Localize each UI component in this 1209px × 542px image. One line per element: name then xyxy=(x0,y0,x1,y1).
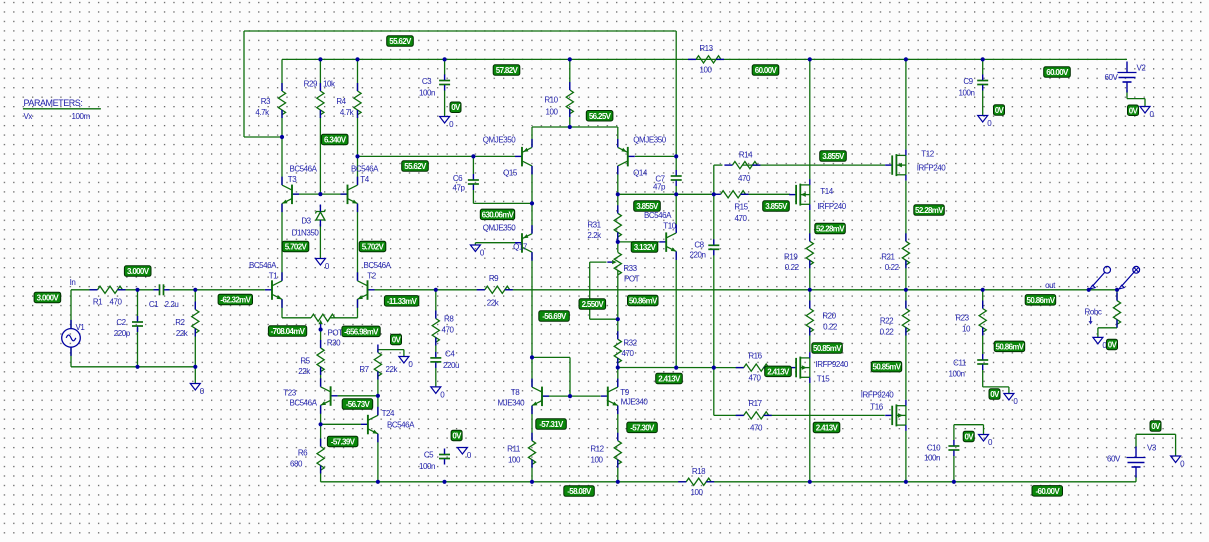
junction xyxy=(530,355,534,359)
resistor R20 xyxy=(806,301,813,336)
wire xyxy=(675,194,677,233)
wire xyxy=(531,252,533,357)
wire xyxy=(377,434,379,482)
net voltage badge 630.06mV xyxy=(480,209,514,220)
capacitor C3 xyxy=(439,75,450,91)
svg-text:22k: 22k xyxy=(176,329,189,338)
wire xyxy=(1127,98,1145,100)
net voltage badge 55.62V xyxy=(402,161,429,172)
junction xyxy=(904,57,908,61)
wire xyxy=(194,367,196,384)
wire xyxy=(244,30,676,32)
wire xyxy=(137,328,139,367)
wire xyxy=(357,156,359,184)
net voltage badge 6.340V xyxy=(321,134,348,145)
wire xyxy=(713,165,715,194)
wire xyxy=(617,319,619,339)
wire xyxy=(282,58,1127,60)
svg-text:BC546A: BC546A xyxy=(644,211,672,220)
svg-text:R21: R21 xyxy=(881,253,895,262)
svg-text:0.22: 0.22 xyxy=(880,328,895,337)
wire xyxy=(675,186,677,194)
junction xyxy=(193,288,197,292)
svg-text:100m: 100m xyxy=(72,112,91,121)
ground xyxy=(978,116,993,129)
wire xyxy=(320,405,322,424)
wire xyxy=(1175,434,1177,456)
wire xyxy=(70,347,72,367)
svg-text:-58.08V: -58.08V xyxy=(567,487,592,496)
resistor R17 xyxy=(736,412,772,419)
svg-text:470: 470 xyxy=(442,326,455,335)
svg-text:V2: V2 xyxy=(1137,64,1147,73)
wire xyxy=(983,425,985,435)
svg-text:C6: C6 xyxy=(453,174,463,183)
junction xyxy=(981,57,985,61)
junction xyxy=(808,288,812,292)
wire xyxy=(377,372,379,396)
svg-text:C5: C5 xyxy=(424,451,434,460)
wire xyxy=(617,127,619,147)
svg-text:3.132V: 3.132V xyxy=(634,243,657,252)
svg-text:0V: 0V xyxy=(995,106,1005,115)
net voltage badge 2.413V xyxy=(813,422,840,433)
svg-text:630.06mV: 630.06mV xyxy=(482,210,515,219)
wire xyxy=(194,290,196,310)
svg-text:50.86mV: 50.86mV xyxy=(629,297,658,306)
svg-text:2.2u: 2.2u xyxy=(165,300,179,309)
svg-text:4.7k: 4.7k xyxy=(340,108,355,117)
resistor R22 xyxy=(902,301,909,336)
wire xyxy=(435,364,437,387)
net voltage badge 55.62V xyxy=(387,36,414,47)
net voltage badge 0V xyxy=(1150,421,1161,432)
wire xyxy=(713,194,715,243)
svg-text:52.28mV: 52.28mV xyxy=(915,206,944,215)
junction xyxy=(376,480,380,484)
wire xyxy=(763,414,884,416)
svg-text:C3: C3 xyxy=(422,77,432,86)
wire xyxy=(617,242,619,252)
wire xyxy=(675,156,677,170)
svg-text:R13: R13 xyxy=(699,44,713,53)
wire xyxy=(137,290,139,320)
wire xyxy=(741,193,791,195)
junction xyxy=(674,192,678,196)
svg-text:C1: C1 xyxy=(149,300,159,309)
wire xyxy=(71,289,98,291)
net voltage badge 0V xyxy=(391,334,402,345)
wire xyxy=(1098,327,1117,329)
resistor Robc xyxy=(1113,293,1120,328)
resistor R5 xyxy=(317,340,324,375)
svg-text:R31: R31 xyxy=(587,221,601,230)
svg-text:0: 0 xyxy=(325,262,330,271)
potentiometer R30 xyxy=(311,314,335,329)
net voltage badge 3.132V xyxy=(631,242,658,253)
wire xyxy=(617,166,619,194)
svg-text:100n: 100n xyxy=(924,454,940,463)
net voltage badge 60.00V xyxy=(1044,67,1071,78)
svg-text:22k: 22k xyxy=(386,365,399,374)
svg-text:220p: 220p xyxy=(114,329,131,338)
svg-text:Q17: Q17 xyxy=(513,243,528,252)
wire xyxy=(542,395,601,397)
resistor R6 xyxy=(317,439,324,474)
svg-text:R14: R14 xyxy=(739,151,753,160)
svg-text:T15: T15 xyxy=(817,375,830,384)
ground xyxy=(979,435,994,448)
wire xyxy=(982,290,984,309)
wire xyxy=(675,251,677,367)
wire xyxy=(281,204,283,281)
wire xyxy=(532,356,570,358)
svg-text:POT: POT xyxy=(624,275,640,284)
svg-text:3.000V: 3.000V xyxy=(127,267,150,276)
svg-text:60.00V: 60.00V xyxy=(1046,68,1069,77)
svg-text:T9: T9 xyxy=(620,388,629,397)
svg-text:0V: 0V xyxy=(990,390,1000,399)
wire xyxy=(357,59,359,91)
junction xyxy=(616,480,620,484)
svg-text:C4: C4 xyxy=(445,350,455,359)
junction xyxy=(319,422,323,426)
svg-text:100n: 100n xyxy=(949,370,965,379)
svg-text:0V: 0V xyxy=(964,433,974,442)
svg-text:100n: 100n xyxy=(959,89,975,98)
svg-text:R3: R3 xyxy=(261,97,271,106)
ground xyxy=(1171,456,1186,469)
resistor R23 xyxy=(979,301,986,336)
svg-text:50.85mV: 50.85mV xyxy=(873,363,902,372)
svg-text:56.25V: 56.25V xyxy=(589,112,612,121)
svg-text:R9: R9 xyxy=(489,274,499,283)
junction xyxy=(135,288,139,292)
wire xyxy=(809,260,811,290)
wire xyxy=(377,396,379,416)
svg-text:-11.33mV: -11.33mV xyxy=(387,297,418,306)
svg-text:C9: C9 xyxy=(963,77,973,86)
svg-text:BC546A: BC546A xyxy=(351,165,379,174)
svg-text:T3: T3 xyxy=(288,175,297,184)
svg-text:52.28mV: 52.28mV xyxy=(816,225,845,234)
junction xyxy=(904,480,908,484)
wire xyxy=(472,190,474,203)
svg-text:V1: V1 xyxy=(76,323,86,332)
ground xyxy=(431,387,446,400)
svg-text:D3: D3 xyxy=(301,217,311,226)
net voltage badge 0V xyxy=(1107,339,1118,350)
ground xyxy=(440,117,455,130)
ground xyxy=(190,384,205,397)
Robc current arrow xyxy=(1089,317,1093,325)
svg-text:2.2k: 2.2k xyxy=(587,231,602,240)
svg-text:-60.00V: -60.00V xyxy=(1036,487,1061,496)
wire xyxy=(358,155,516,157)
wire xyxy=(1135,476,1137,482)
junction xyxy=(808,57,812,61)
resistor R16 xyxy=(736,364,772,371)
wire xyxy=(71,366,195,368)
net voltage badge 0V xyxy=(963,431,974,442)
wire xyxy=(982,59,984,75)
svg-text:BC546A: BC546A xyxy=(363,261,391,270)
svg-text:-62.32mV: -62.32mV xyxy=(220,296,251,305)
svg-text:220n: 220n xyxy=(690,251,706,260)
junction xyxy=(1087,288,1091,292)
wire xyxy=(403,350,405,357)
wire xyxy=(281,110,283,137)
net voltage badge -656.98mV xyxy=(342,326,380,337)
net voltage badge 52.28mV xyxy=(815,223,846,234)
svg-text:R10: R10 xyxy=(544,96,558,105)
svg-text:T24: T24 xyxy=(382,409,395,418)
svg-text:2.413V: 2.413V xyxy=(658,375,681,384)
svg-text:R29: R29 xyxy=(304,80,318,89)
wire xyxy=(617,460,619,482)
NPN transistor T23 xyxy=(321,378,338,414)
svg-text:T4: T4 xyxy=(360,175,369,184)
NPN transistor T24 xyxy=(361,407,378,443)
svg-text:R16: R16 xyxy=(748,352,762,361)
wire xyxy=(472,156,474,174)
junction xyxy=(616,317,620,321)
svg-text:0: 0 xyxy=(987,119,992,128)
net voltage badge -56.73V xyxy=(342,399,373,410)
capacitor C4 xyxy=(430,352,441,368)
capacitor C7 xyxy=(671,170,682,186)
wire xyxy=(243,31,245,137)
capacitor C11 xyxy=(977,354,988,370)
svg-text:R23: R23 xyxy=(955,314,969,323)
svg-text:0: 0 xyxy=(1013,397,1018,406)
resistor R14 xyxy=(724,162,760,169)
svg-text:R20: R20 xyxy=(822,312,836,321)
junction xyxy=(318,192,322,196)
svg-text:IRFP240: IRFP240 xyxy=(917,164,946,173)
wire xyxy=(1144,99,1146,107)
svg-text:0.22: 0.22 xyxy=(885,263,900,272)
svg-text:-57.31V: -57.31V xyxy=(539,420,564,429)
voltage probe marker 1 xyxy=(1090,266,1111,289)
net voltage badge -56.69V xyxy=(539,311,570,322)
svg-text:T14: T14 xyxy=(820,187,833,196)
svg-text:T1: T1 xyxy=(269,272,278,281)
wire xyxy=(617,368,619,387)
svg-text:T12: T12 xyxy=(921,150,934,159)
svg-text:470: 470 xyxy=(622,349,635,358)
wire xyxy=(714,193,721,195)
wire xyxy=(763,367,789,369)
net voltage badge -62.32mV xyxy=(218,294,252,305)
junction xyxy=(355,154,359,158)
wire xyxy=(953,425,955,441)
resistor R21 xyxy=(902,233,909,268)
wire xyxy=(375,289,486,291)
resistor R12 xyxy=(614,433,621,468)
PNP transistor Q17 xyxy=(515,225,532,261)
net voltage badge 56.25V xyxy=(586,111,613,122)
NPN transistor T4 xyxy=(341,177,358,213)
svg-text:V3: V3 xyxy=(1147,444,1157,453)
wire xyxy=(905,431,907,482)
svg-text:22k: 22k xyxy=(298,367,311,376)
net voltage badge 3.000V xyxy=(124,266,151,277)
wire xyxy=(319,59,321,91)
wire xyxy=(1136,433,1176,435)
ground xyxy=(470,245,485,258)
svg-text:T23: T23 xyxy=(283,389,296,398)
wire xyxy=(531,166,533,204)
svg-text:57.82V: 57.82V xyxy=(496,66,519,75)
svg-text:R19: R19 xyxy=(784,253,798,262)
wire xyxy=(1126,90,1128,99)
net voltage badge 3.855V xyxy=(634,201,661,212)
net voltage badge 2.550V xyxy=(579,299,606,310)
wire xyxy=(194,329,196,367)
capacitor C10 xyxy=(948,440,959,456)
wire xyxy=(809,328,811,353)
wire xyxy=(713,251,715,415)
resistor R7 xyxy=(374,345,381,380)
PNP transistor Q14 xyxy=(618,139,635,175)
wire xyxy=(618,367,744,369)
resistor R1 xyxy=(90,286,126,293)
wire xyxy=(281,299,283,318)
svg-text:0: 0 xyxy=(988,438,993,447)
svg-text:22k: 22k xyxy=(487,299,500,308)
NPN transistor T10 xyxy=(659,224,676,260)
net voltage badge 0V xyxy=(1128,105,1139,116)
svg-text:BC546A: BC546A xyxy=(387,421,415,430)
junction xyxy=(674,366,678,370)
svg-text:R33: R33 xyxy=(623,264,637,273)
junction xyxy=(904,288,908,292)
svg-text:QMJE350: QMJE350 xyxy=(483,136,516,145)
svg-text:R4: R4 xyxy=(336,97,346,106)
wire xyxy=(320,367,322,386)
capacitor C6 xyxy=(468,174,479,190)
MOSFET T12 xyxy=(885,150,906,181)
svg-text:3.855V: 3.855V xyxy=(636,202,659,211)
wire xyxy=(589,262,591,319)
svg-text:470: 470 xyxy=(735,214,748,223)
wire xyxy=(531,406,533,441)
wire xyxy=(320,330,322,348)
wire xyxy=(618,193,714,195)
junction xyxy=(616,192,620,196)
resistor R11 xyxy=(528,433,535,468)
net voltage badge 2.413V xyxy=(656,373,683,384)
wire xyxy=(320,466,322,482)
svg-text:QMJE350: QMJE350 xyxy=(633,136,666,145)
svg-text:3.855V: 3.855V xyxy=(822,152,845,161)
svg-text:680: 680 xyxy=(290,460,303,469)
voltage probe marker 2 xyxy=(1119,266,1140,289)
svg-text:-57.30V: -57.30V xyxy=(630,423,655,432)
wire xyxy=(905,260,907,290)
wire xyxy=(617,358,619,367)
wire xyxy=(282,317,311,319)
svg-text:0: 0 xyxy=(467,451,472,460)
wire xyxy=(954,424,984,426)
wire xyxy=(905,328,907,400)
svg-text:MJE340: MJE340 xyxy=(621,398,649,407)
wire xyxy=(982,369,984,387)
junction xyxy=(674,154,678,158)
net voltage badge 5.702V xyxy=(359,241,386,252)
junction xyxy=(712,192,716,196)
wire xyxy=(195,289,265,291)
wire xyxy=(905,181,907,242)
svg-text:IRFP9240: IRFP9240 xyxy=(861,391,894,400)
ground xyxy=(1093,337,1108,350)
svg-text:R18: R18 xyxy=(692,467,706,476)
junction xyxy=(568,57,572,61)
svg-text:-56.73V: -56.73V xyxy=(346,400,371,409)
parameters block xyxy=(23,98,101,121)
junction xyxy=(319,327,323,331)
svg-text:0V: 0V xyxy=(1108,341,1118,350)
net voltage badge -11.33mV xyxy=(384,296,418,307)
svg-text:470: 470 xyxy=(750,424,763,433)
svg-text:2.413V: 2.413V xyxy=(816,424,839,433)
svg-text:BC546A: BC546A xyxy=(249,261,277,270)
wire xyxy=(617,406,619,441)
wire xyxy=(473,202,532,204)
wire xyxy=(321,481,687,483)
svg-text:50.86mV: 50.86mV xyxy=(996,342,1025,351)
wire xyxy=(378,349,404,351)
wire xyxy=(444,90,446,117)
svg-text:Q14: Q14 xyxy=(633,169,648,178)
wire xyxy=(435,290,437,319)
net voltage badge 50.86mV xyxy=(1025,295,1056,306)
net voltage badge 0V xyxy=(994,105,1005,116)
net voltage badge 50.86mV xyxy=(628,295,659,306)
NPN transistor T2 xyxy=(358,272,375,308)
ground xyxy=(399,357,414,370)
wire xyxy=(338,395,378,397)
resistor R29 xyxy=(317,83,324,118)
wire xyxy=(531,127,533,147)
NPN transistor T1 xyxy=(265,272,282,308)
svg-text:10: 10 xyxy=(962,325,971,334)
ground xyxy=(315,259,330,272)
capacitor C8 xyxy=(708,239,719,255)
NPN transistor T8 xyxy=(532,379,549,415)
svg-text:C11: C11 xyxy=(953,359,967,368)
junction xyxy=(981,288,985,292)
net voltage badge 60.00V xyxy=(752,65,779,76)
svg-text:-708.04mV: -708.04mV xyxy=(271,327,306,336)
wire xyxy=(244,136,282,138)
capacitor C1 xyxy=(154,284,170,295)
wire xyxy=(377,350,379,353)
svg-text:0: 0 xyxy=(200,387,205,396)
svg-text:100: 100 xyxy=(691,488,704,497)
DC voltage source V2 xyxy=(1118,62,1137,93)
wire xyxy=(982,90,984,116)
wire xyxy=(1008,387,1010,394)
wire xyxy=(809,59,811,179)
junction xyxy=(568,125,572,129)
wire xyxy=(319,224,321,259)
junction xyxy=(712,366,716,370)
wire xyxy=(809,383,811,482)
svg-text:-56.69V: -56.69V xyxy=(542,312,567,321)
svg-text:R5: R5 xyxy=(300,357,310,366)
